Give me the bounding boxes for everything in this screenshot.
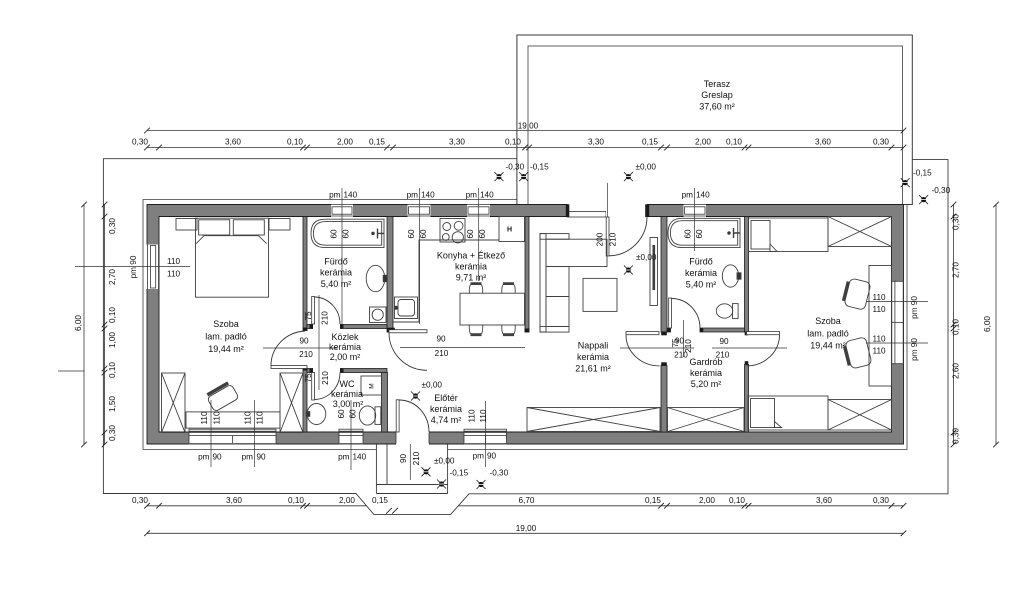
- svg-text:kerámia: kerámia: [320, 268, 352, 278]
- window labels bottom: [198, 452, 496, 462]
- svg-text:0,30: 0,30: [952, 214, 961, 230]
- szoba2 wardrobe bottom: [828, 400, 892, 431]
- dimension chain right: [953, 205, 955, 445]
- svg-text:±0,00: ±0,00: [636, 253, 657, 262]
- door D7 gardrob leaf and swing: [626, 332, 667, 366]
- room label eloter: [430, 393, 462, 425]
- level marker porch -0,30: [477, 480, 486, 489]
- svg-text:kerámia: kerámia: [430, 404, 462, 414]
- outer wall ring: [147, 205, 904, 445]
- svg-text:lam. padló: lam. padló: [807, 329, 849, 339]
- dimension chain left: [58, 205, 105, 445]
- svg-text:Konyha + Étkező: Konyha + Étkező: [437, 251, 505, 261]
- window W4 top furdo2 pm140: [684, 204, 707, 217]
- window labels right wall: [873, 293, 920, 361]
- svg-text:19,44 m²: 19,44 m²: [810, 341, 846, 351]
- svg-text:0,10: 0,10: [729, 496, 745, 505]
- door D5 entrance opening: [396, 400, 429, 445]
- svg-text:kerámia: kerámia: [685, 268, 717, 278]
- svg-text:0,30: 0,30: [132, 496, 148, 505]
- svg-text:H: H: [507, 227, 512, 234]
- svg-text:110: 110: [468, 409, 477, 422]
- svg-text:0,30: 0,30: [873, 496, 889, 505]
- svg-text:2,00 m²: 2,00 m²: [330, 352, 361, 362]
- svg-text:0,10: 0,10: [287, 138, 303, 147]
- interior wall furdo2/gardrob: [667, 328, 745, 332]
- dimension total top 19,00: [147, 130, 904, 132]
- window W10 bottom WC pm140: [339, 429, 363, 444]
- svg-text:±0,00: ±0,00: [422, 381, 443, 390]
- svg-text:90: 90: [487, 452, 497, 461]
- level marker terrace +-0,00: [624, 172, 633, 181]
- svg-text:4,74 m²: 4,74 m²: [431, 415, 462, 425]
- svg-text:-0,30: -0,30: [932, 186, 951, 195]
- svg-text:-0,15: -0,15: [530, 163, 549, 172]
- svg-text:pm: pm: [682, 191, 694, 200]
- terrace door sill fixed glass: [568, 204, 607, 217]
- svg-text:0,10: 0,10: [288, 496, 304, 505]
- svg-text:140: 140: [353, 453, 367, 462]
- svg-text:60: 60: [349, 409, 358, 419]
- svg-text:6,70: 6,70: [519, 496, 535, 505]
- svg-text:0,30: 0,30: [108, 425, 117, 441]
- plot boundary outline: [103, 159, 948, 515]
- window W1 top furdo1 pm140: [331, 204, 353, 217]
- svg-text:0,30: 0,30: [952, 428, 961, 444]
- svg-text:210: 210: [684, 339, 693, 353]
- svg-text:110: 110: [873, 347, 886, 356]
- interior wall gardrob/szoba2 lower: [745, 365, 749, 433]
- interior wall furdo1 bottom: [307, 325, 387, 329]
- svg-text:0,30: 0,30: [132, 138, 148, 147]
- gardrob wardrobe: [668, 408, 745, 432]
- interior wall gardrob/szoba2 upper: [745, 217, 749, 333]
- svg-text:110: 110: [873, 335, 886, 344]
- interior wall szoba1/furdo1 column: [303, 217, 307, 433]
- svg-text:6,00: 6,00: [74, 315, 83, 331]
- svg-text:-0,15: -0,15: [450, 469, 469, 478]
- svg-text:90: 90: [436, 335, 446, 344]
- door D6 terrace leaf and swing: [566, 204, 649, 256]
- svg-text:9,71 m²: 9,71 m²: [456, 273, 487, 283]
- svg-text:±0,00: ±0,00: [434, 457, 455, 466]
- szoba1 desk: [186, 412, 280, 428]
- interior wall nappali/gardrob lower: [661, 366, 667, 433]
- svg-text:90: 90: [719, 337, 729, 346]
- svg-text:3,60: 3,60: [226, 496, 242, 505]
- svg-text:0,15: 0,15: [369, 138, 385, 147]
- level marker terrace-left -0,15: [519, 172, 528, 181]
- szoba1 wardrobe right: [280, 373, 303, 433]
- interior wall nappali/furdo2 upper: [661, 217, 667, 333]
- svg-text:2,60: 2,60: [952, 363, 961, 379]
- svg-text:5,40 m²: 5,40 m²: [321, 279, 352, 289]
- svg-text:200: 200: [596, 232, 605, 246]
- room label kozlek: [329, 332, 361, 362]
- svg-text:210: 210: [609, 232, 618, 246]
- svg-text:lam. padló: lam. padló: [205, 332, 247, 342]
- svg-text:5,40 m²: 5,40 m²: [686, 280, 717, 290]
- svg-text:3,30: 3,30: [449, 138, 465, 147]
- level marker nappali +-0,00: [624, 266, 633, 275]
- svg-text:90: 90: [213, 453, 223, 462]
- interior wall WC top: [307, 369, 387, 373]
- svg-text:0,10: 0,10: [108, 362, 117, 378]
- svg-text:pm: pm: [473, 452, 485, 461]
- svg-text:90: 90: [399, 454, 408, 464]
- svg-text:140: 140: [696, 191, 710, 200]
- svg-text:Szoba: Szoba: [815, 316, 841, 326]
- svg-text:kerámia: kerámia: [329, 342, 361, 352]
- szoba1 pillow left: [199, 220, 230, 235]
- svg-text:1,00: 1,00: [108, 332, 117, 348]
- terrace inner outline: [528, 46, 903, 205]
- svg-text:0,30: 0,30: [108, 218, 117, 234]
- door D9 szoba2 leaf and swing: [745, 332, 780, 366]
- room label szoba1: [205, 319, 247, 354]
- rotated 60 labels windows: [330, 229, 705, 419]
- konyha counter edge: [393, 240, 499, 322]
- svg-text:60: 60: [684, 229, 693, 239]
- door D2 furdo1 opening: [310, 297, 344, 330]
- svg-text:60: 60: [330, 229, 339, 239]
- leader lines for openings: [75, 183, 928, 480]
- room label furdo1: [320, 257, 352, 290]
- svg-text:2,00: 2,00: [337, 138, 353, 147]
- room label szoba2: [807, 316, 849, 351]
- svg-text:pm: pm: [329, 191, 341, 200]
- svg-text:110: 110: [873, 305, 886, 314]
- szoba1 wardrobe left: [162, 373, 186, 433]
- svg-text:pm: pm: [466, 191, 478, 200]
- svg-text:2,00: 2,00: [339, 496, 355, 505]
- svg-text:6,00: 6,00: [983, 316, 992, 332]
- svg-text:0,10: 0,10: [108, 307, 117, 323]
- svg-text:110: 110: [873, 293, 886, 302]
- szoba1 nightstand left: [176, 219, 197, 231]
- svg-text:Nappali: Nappali: [578, 341, 609, 351]
- window labels pm140 top: [329, 191, 710, 200]
- svg-text:75: 75: [304, 373, 313, 383]
- dimension total left 6,00: [83, 205, 85, 445]
- eaves outline around building: [143, 200, 907, 450]
- door D8 furdo2 leaf and swing: [667, 298, 703, 332]
- level marker right -0,15: [901, 178, 910, 187]
- terrace door open gap: [606, 204, 647, 218]
- svg-text:210: 210: [435, 349, 449, 358]
- room label furdo2: [685, 257, 717, 290]
- window W5 left szoba1 pm90: [146, 245, 158, 290]
- szoba2 chair1: [842, 278, 871, 311]
- door size labels: [299, 232, 730, 465]
- szoba1 nightstand right: [269, 219, 290, 231]
- svg-text:60: 60: [407, 229, 416, 239]
- svg-text:0,10: 0,10: [952, 319, 961, 335]
- svg-text:WC: WC: [340, 379, 355, 389]
- furdo1 sink: [366, 265, 385, 291]
- svg-text:75: 75: [304, 311, 313, 321]
- konyha fridge H: [499, 217, 525, 242]
- svg-text:60: 60: [466, 229, 475, 239]
- svg-text:60: 60: [419, 229, 428, 239]
- svg-text:5,20 m²: 5,20 m²: [691, 379, 722, 389]
- svg-text:37,60 m²: 37,60 m²: [699, 102, 735, 112]
- svg-text:pm: pm: [198, 453, 210, 462]
- svg-text:60: 60: [342, 229, 351, 239]
- dimension chain bottom with porch detour: [147, 505, 904, 507]
- furdo2 sink: [722, 265, 738, 287]
- svg-text:1,50: 1,50: [108, 396, 117, 412]
- svg-text:110: 110: [479, 409, 488, 422]
- svg-text:140: 140: [480, 191, 494, 200]
- svg-text:90: 90: [299, 337, 309, 346]
- svg-text:19,44 m²: 19,44 m²: [208, 344, 244, 354]
- furdo2 bathtub: [668, 218, 740, 247]
- svg-text:pm: pm: [407, 191, 419, 200]
- room label Terasz: [699, 79, 735, 112]
- wc basin: [307, 404, 326, 425]
- door D1 szoba1 opening: [271, 328, 308, 371]
- svg-text:140: 140: [421, 191, 435, 200]
- svg-text:3,60: 3,60: [815, 138, 831, 147]
- etkezo chairs: [469, 284, 482, 293]
- dimension total right 6,00: [995, 205, 997, 445]
- window W2 top konyha pm140: [408, 204, 431, 217]
- svg-text:21,61 m²: 21,61 m²: [575, 364, 611, 374]
- svg-text:Előtér: Előtér: [434, 393, 458, 403]
- window W11 bottom nappali pm90: [464, 429, 507, 444]
- szoba2 bed bottom: [748, 396, 828, 430]
- svg-text:-0,30: -0,30: [506, 163, 525, 172]
- szoba2 wardrobe top: [828, 217, 892, 247]
- szoba1 chair: [206, 382, 239, 412]
- svg-text:210: 210: [412, 451, 421, 465]
- svg-text:pm 90: pm 90: [910, 338, 919, 361]
- window W8+W9 bottom szoba1 pm90 double: [189, 429, 276, 444]
- svg-text:0,15: 0,15: [645, 496, 661, 505]
- svg-text:Gardrób: Gardrób: [689, 357, 722, 367]
- svg-text:2,70: 2,70: [952, 262, 961, 278]
- svg-text:Fürdő: Fürdő: [689, 257, 713, 267]
- svg-text:75: 75: [671, 338, 680, 348]
- nappali wardrobe bottom: [527, 408, 660, 432]
- level marker eloter +-0,00: [411, 392, 420, 401]
- svg-text:kerámia: kerámia: [690, 368, 722, 378]
- room label wc: [331, 379, 363, 409]
- interior wall WC east: [382, 373, 388, 433]
- svg-text:Terasz: Terasz: [704, 79, 731, 89]
- svg-text:0,30: 0,30: [873, 138, 889, 147]
- konyha stove: [440, 219, 465, 243]
- level marker porch -0,15: [437, 480, 446, 489]
- wc washing machine M: [361, 376, 382, 395]
- interior wall konyha/nappali: [525, 217, 529, 333]
- svg-text:kerámia: kerámia: [455, 262, 487, 272]
- room label gardrob: [689, 357, 722, 389]
- svg-text:110: 110: [200, 411, 209, 424]
- level marker porch +-0,00: [422, 467, 431, 476]
- szoba1 blanket edge with folds: [196, 236, 266, 244]
- svg-text:pm: pm: [242, 453, 254, 462]
- svg-text:2,70: 2,70: [108, 269, 117, 285]
- door D3 WC opening: [310, 368, 344, 400]
- dimension chain top: [147, 147, 904, 149]
- svg-text:kerámia: kerámia: [577, 352, 609, 362]
- porch steps at entrance: [376, 445, 447, 494]
- level marker terrace-left -0,30: [495, 172, 504, 181]
- svg-text:±0,00: ±0,00: [636, 163, 657, 172]
- svg-text:pm: pm: [338, 453, 350, 462]
- room label konyha: [437, 251, 505, 283]
- svg-text:kerámia: kerámia: [331, 389, 363, 399]
- svg-text:110: 110: [167, 257, 180, 266]
- room label nappali: [575, 341, 611, 374]
- svg-text:60: 60: [337, 409, 346, 419]
- wc toilet: [359, 406, 375, 425]
- svg-text:2,00: 2,00: [699, 496, 715, 505]
- furdo2 toilet: [716, 304, 732, 318]
- svg-text:19,00: 19,00: [518, 122, 539, 131]
- svg-text:0,10: 0,10: [726, 138, 742, 147]
- svg-text:3,60: 3,60: [816, 496, 832, 505]
- svg-text:19,00: 19,00: [516, 524, 537, 533]
- svg-text:110: 110: [244, 411, 253, 424]
- dimension total bottom 19,00: [147, 532, 904, 534]
- etkezo table: [460, 293, 525, 325]
- svg-text:-0,15: -0,15: [913, 169, 932, 178]
- svg-text:pm 90: pm 90: [910, 296, 919, 319]
- svg-text:0,15: 0,15: [642, 138, 658, 147]
- svg-text:pm 90: pm 90: [129, 255, 138, 278]
- szoba2 chair2: [843, 337, 872, 370]
- svg-text:210: 210: [321, 371, 330, 385]
- level marker right -0,30: [919, 195, 928, 204]
- svg-text:Greslap: Greslap: [701, 90, 733, 100]
- svg-text:Szoba: Szoba: [213, 319, 239, 329]
- svg-text:110: 110: [213, 411, 222, 424]
- svg-text:Közlek: Közlek: [331, 332, 359, 342]
- svg-text:0,10: 0,10: [505, 138, 521, 147]
- szoba2 bed top: [749, 218, 829, 252]
- svg-text:210: 210: [321, 311, 330, 325]
- door D4 konyha-eloter opening: [387, 328, 427, 371]
- svg-text:0,15: 0,15: [372, 496, 388, 505]
- nappali tv board: [650, 238, 658, 306]
- szoba1 double bed: [196, 218, 269, 297]
- window labels left wall: [129, 255, 180, 278]
- interior wall furdo1/konyha: [387, 217, 393, 333]
- svg-text:M: M: [369, 383, 376, 388]
- window W3 top konyha pm140: [467, 204, 490, 217]
- szoba1 pillow right: [233, 220, 264, 235]
- window 110 rotated labels bottom szoba1: [200, 409, 488, 424]
- furdo1 washing machine: [370, 307, 387, 323]
- window W6+W7 right szoba2 pm90 double: [892, 281, 903, 364]
- svg-text:210: 210: [299, 350, 313, 359]
- svg-text:60: 60: [478, 229, 487, 239]
- svg-text:140: 140: [344, 191, 358, 200]
- szoba2 desk: [869, 266, 892, 387]
- svg-text:110: 110: [167, 270, 180, 279]
- svg-text:110: 110: [256, 411, 265, 424]
- nappali sofa: [540, 234, 546, 332]
- terrace outer outline: [517, 35, 912, 205]
- svg-text:Fürdő: Fürdő: [324, 257, 348, 267]
- konyha sink: [395, 297, 418, 319]
- furdo1 bathtub: [311, 219, 384, 247]
- wall cap konyha-nappali wall bottom: [525, 329, 530, 333]
- svg-text:3,00 m²: 3,00 m²: [333, 399, 364, 409]
- nappali coffee table: [583, 278, 617, 311]
- svg-text:90: 90: [257, 453, 267, 462]
- svg-text:60: 60: [695, 229, 704, 239]
- svg-text:3,60: 3,60: [225, 138, 241, 147]
- svg-text:2,00: 2,00: [695, 138, 711, 147]
- svg-text:3,30: 3,30: [588, 138, 604, 147]
- svg-text:-0,30: -0,30: [490, 469, 509, 478]
